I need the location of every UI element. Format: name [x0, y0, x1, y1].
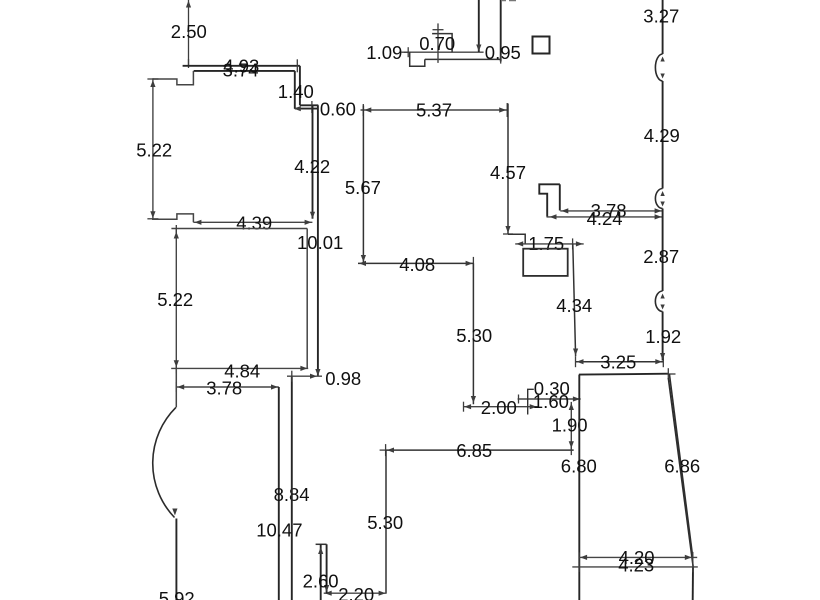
vertical line 10.47	[291, 376, 293, 600]
room B top edge	[171, 228, 307, 230]
svg-text:1.90: 1.90	[552, 414, 588, 435]
dimension line 4.84	[171, 367, 308, 369]
wall top outer line (4.93)	[183, 65, 300, 67]
svg-text:4.23: 4.23	[618, 555, 654, 576]
text remnants at top edge	[502, 0, 506, 2]
wall verticals going down (4.22 / long)	[312, 105, 314, 218]
vertical line 8.84	[278, 387, 280, 600]
small square symbol	[533, 37, 550, 54]
svg-text:4.34: 4.34	[556, 295, 592, 316]
room B left wall / dim 5.22	[175, 229, 177, 369]
svg-text:1.40: 1.40	[278, 81, 314, 102]
wall 2.60 vertical right	[326, 544, 328, 593]
svg-text:5.30: 5.30	[456, 325, 492, 346]
wall 2.60 tick top	[316, 543, 327, 545]
arc break 1	[655, 54, 662, 81]
svg-text:5.22: 5.22	[136, 140, 172, 161]
svg-text:2.00: 2.00	[481, 397, 517, 418]
svg-text:10.01: 10.01	[297, 232, 343, 253]
dimension line 4.20	[579, 556, 697, 558]
dimension line 0.98	[287, 375, 322, 377]
dimension line 1.09 horizontal	[404, 51, 484, 53]
vertical wall from top edge (left)	[478, 0, 480, 52]
svg-text:5.30: 5.30	[367, 512, 403, 533]
quad right slant outer 6.86	[669, 374, 692, 557]
quad top edge	[579, 373, 669, 376]
horizontal wall line to 0.95	[425, 58, 501, 60]
svg-text:1.09: 1.09	[366, 42, 402, 63]
svg-text:6.80: 6.80	[561, 455, 597, 476]
wall top inner line (3.74)	[194, 70, 295, 72]
svg-text:6.86: 6.86	[664, 455, 700, 476]
dimension line 4.08	[358, 262, 473, 264]
vertical line 4.57	[507, 104, 509, 235]
dimension line 3.78 upper	[560, 210, 662, 212]
dimension line 1.90 vertical	[570, 402, 572, 449]
room B left wall lower stub	[175, 368, 177, 407]
svg-text:5.22: 5.22	[157, 289, 193, 310]
corner to 1.75	[508, 234, 525, 244]
svg-text:2.60: 2.60	[303, 571, 339, 592]
svg-text:4.29: 4.29	[644, 125, 680, 146]
quad right slant inner	[668, 378, 693, 567]
svg-text:5.92: 5.92	[159, 588, 195, 600]
quad left wall 6.80	[578, 375, 580, 600]
svg-text:3.78: 3.78	[206, 378, 242, 399]
right wall segment 3.27	[662, 0, 664, 54]
dimension line 5.37	[361, 109, 508, 111]
svg-text:1.92: 1.92	[645, 326, 681, 347]
small step above (0.70 reference)	[432, 34, 452, 53]
svg-text:5.67: 5.67	[345, 177, 381, 198]
wall below curve to bottom edge	[175, 519, 177, 600]
bracket shape 0.30	[528, 389, 534, 414]
vertical wall from top edge (right)	[500, 0, 502, 62]
svg-text:2.50: 2.50	[171, 21, 207, 42]
rectangle symbol (cabinet)	[523, 249, 568, 276]
room A / dim 5.22 left wall	[152, 78, 154, 219]
step shape below 1.09 line	[410, 52, 425, 66]
svg-text:0.95: 0.95	[485, 42, 521, 63]
svg-text:4.57: 4.57	[490, 162, 526, 183]
room curve wall (bay) left bottom	[153, 407, 176, 517]
arc break 3	[655, 291, 662, 312]
svg-text:3.27: 3.27	[643, 5, 679, 26]
dimension line 2.00	[463, 406, 537, 408]
wall corner verticals (1.40 jog)	[299, 66, 301, 106]
svg-text:4.08: 4.08	[399, 254, 435, 275]
svg-text:5.37: 5.37	[416, 99, 452, 120]
svg-text:0.98: 0.98	[325, 368, 361, 389]
right wall segment 2.87	[662, 209, 664, 292]
flag shape wall piece	[539, 184, 560, 216]
flag right vertical	[559, 184, 561, 210]
svg-text:4.24: 4.24	[587, 208, 623, 229]
dimension line 2.50 vertical	[188, 0, 190, 66]
svg-text:2.87: 2.87	[643, 246, 679, 267]
dimension line 4.39	[193, 221, 312, 223]
svg-text:2.20: 2.20	[338, 584, 374, 600]
dimension line 4.23	[572, 566, 698, 568]
svg-text:1.60: 1.60	[533, 391, 569, 412]
dimension line 3.25	[576, 361, 664, 363]
dimension line 1.75	[515, 243, 584, 245]
right wall segment 4.29	[662, 81, 664, 189]
vertical line 5.67	[362, 106, 364, 264]
svg-text:3.25: 3.25	[600, 351, 636, 372]
svg-text:10.47: 10.47	[256, 519, 302, 540]
dimension line 3.78 lower-left	[176, 386, 279, 388]
svg-text:1.75: 1.75	[528, 233, 564, 254]
quad right wall below to bottom edge	[692, 567, 694, 600]
vertical line 5.30 lower	[385, 450, 387, 593]
svg-text:0.70: 0.70	[419, 33, 455, 54]
arc break 2	[655, 189, 662, 209]
wall jog horizontals (0.60)	[300, 104, 318, 106]
slanted line 4.34	[573, 244, 576, 356]
svg-text:4.39: 4.39	[236, 213, 272, 234]
svg-text:4.22: 4.22	[294, 156, 330, 177]
svg-text:0.60: 0.60	[320, 98, 356, 119]
room A top edge with step	[153, 71, 194, 85]
dimension line 1.60	[518, 398, 581, 400]
svg-text:3.74: 3.74	[223, 60, 259, 81]
dimension line 0.70 vertical	[437, 23, 439, 63]
dimension line 2.20	[324, 592, 387, 594]
room A bottom edge with notch	[152, 214, 193, 222]
svg-text:6.85: 6.85	[456, 440, 492, 461]
right wall segment 1.92	[662, 312, 664, 361]
room B right wall	[306, 229, 308, 369]
vertical line 5.30 upper	[472, 263, 474, 404]
wall 2.60 vertical left	[320, 544, 322, 600]
dimension line 4.24	[547, 216, 663, 218]
dimension line 6.85	[386, 449, 574, 451]
